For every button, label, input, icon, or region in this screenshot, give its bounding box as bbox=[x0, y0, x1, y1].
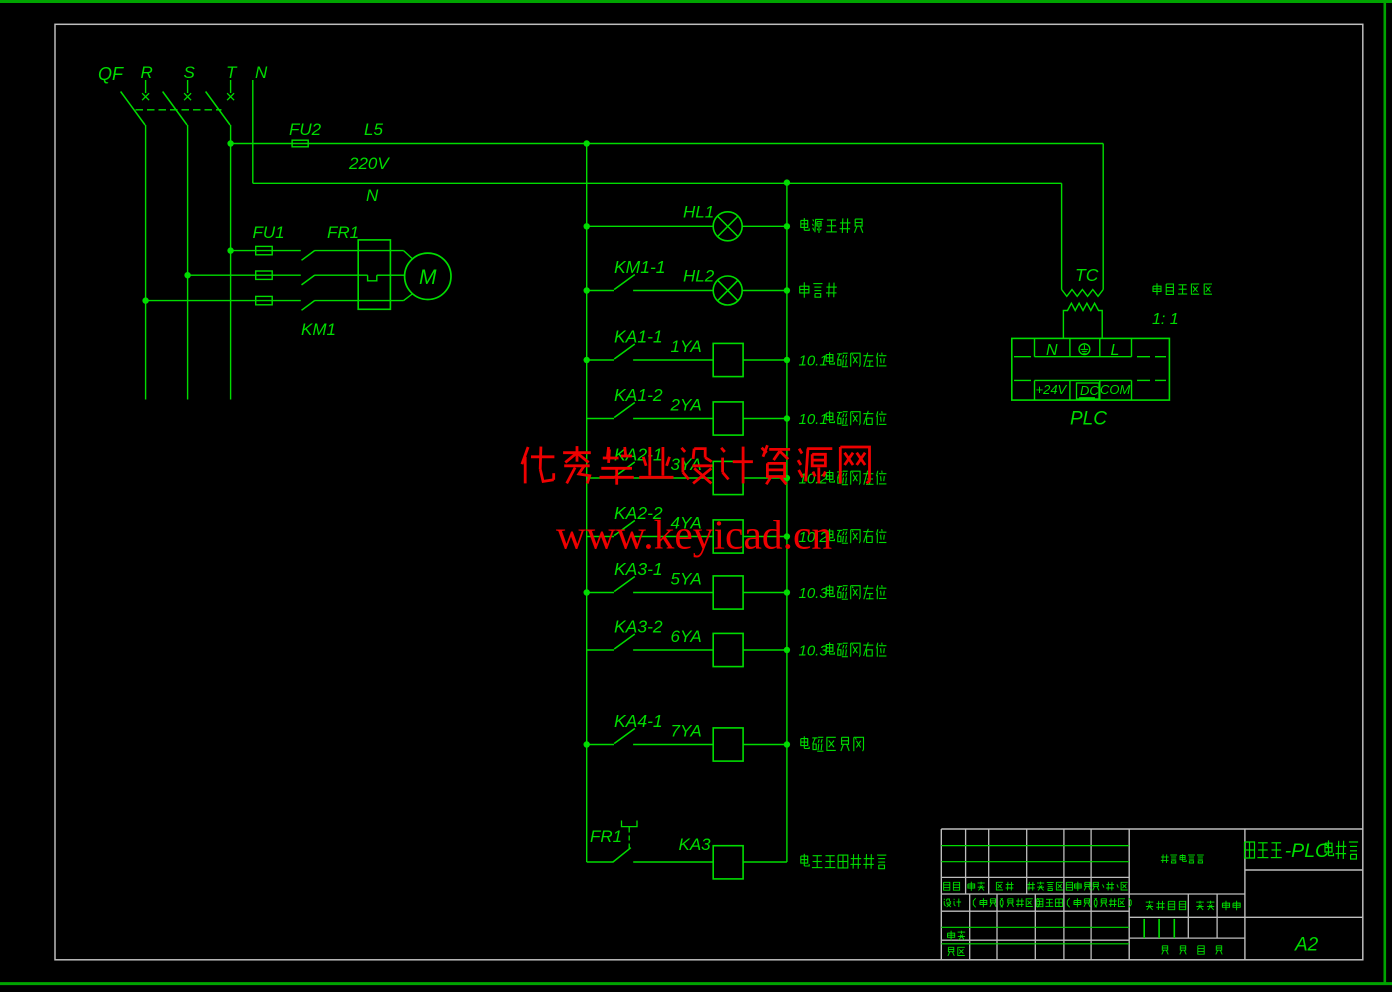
svg-text:KA3: KA3 bbox=[679, 835, 712, 854]
svg-text:10.1: 10.1 bbox=[799, 411, 828, 428]
svg-text:DC: DC bbox=[1080, 383, 1099, 398]
svg-text:N: N bbox=[366, 186, 379, 205]
svg-text:7YA: 7YA bbox=[671, 722, 702, 741]
svg-text:FR1: FR1 bbox=[590, 827, 622, 846]
svg-text:HL2: HL2 bbox=[683, 267, 715, 286]
svg-text:5YA: 5YA bbox=[671, 570, 702, 589]
svg-text:www.keyicad.cn: www.keyicad.cn bbox=[556, 512, 832, 558]
svg-text:N: N bbox=[255, 63, 268, 82]
svg-text:1YA: 1YA bbox=[671, 337, 702, 356]
svg-text:HL1: HL1 bbox=[683, 202, 714, 221]
svg-text:6YA: 6YA bbox=[671, 627, 702, 646]
svg-text:QF: QF bbox=[98, 64, 124, 84]
svg-text:N: N bbox=[1046, 342, 1058, 359]
svg-text:1: 1: 1: 1 bbox=[1152, 311, 1179, 328]
svg-text:+24V: +24V bbox=[1036, 382, 1068, 397]
svg-text:10.1: 10.1 bbox=[799, 353, 828, 370]
svg-text:M: M bbox=[419, 266, 437, 289]
svg-text:2YA: 2YA bbox=[670, 396, 702, 415]
svg-text:R: R bbox=[141, 63, 153, 82]
svg-text:FU2: FU2 bbox=[289, 120, 322, 139]
svg-text:KA1-1: KA1-1 bbox=[614, 327, 663, 347]
svg-text:A2: A2 bbox=[1294, 935, 1319, 956]
svg-text:10.3: 10.3 bbox=[799, 585, 829, 602]
svg-text:KA2-1: KA2-1 bbox=[614, 445, 663, 465]
svg-text:KA4-1: KA4-1 bbox=[614, 711, 663, 731]
svg-text:L5: L5 bbox=[364, 120, 383, 139]
svg-text:T: T bbox=[226, 63, 238, 82]
svg-text:220V: 220V bbox=[348, 154, 390, 173]
svg-text:COM: COM bbox=[1100, 382, 1131, 397]
svg-text:KM1-1: KM1-1 bbox=[614, 257, 666, 277]
svg-text:KA1-2: KA1-2 bbox=[614, 385, 663, 405]
svg-text:S: S bbox=[184, 63, 196, 82]
svg-text:KA3-2: KA3-2 bbox=[614, 617, 663, 637]
svg-text:FU1: FU1 bbox=[253, 223, 285, 242]
svg-text:KM1: KM1 bbox=[301, 320, 336, 339]
svg-text:10.3: 10.3 bbox=[799, 643, 829, 660]
svg-text:PLC: PLC bbox=[1070, 409, 1107, 430]
svg-text:-PLC: -PLC bbox=[1285, 840, 1330, 862]
svg-text:TC: TC bbox=[1075, 265, 1099, 285]
svg-text:L: L bbox=[1111, 342, 1120, 359]
svg-text:FR1: FR1 bbox=[327, 223, 359, 242]
svg-text:KA3-1: KA3-1 bbox=[614, 559, 663, 579]
